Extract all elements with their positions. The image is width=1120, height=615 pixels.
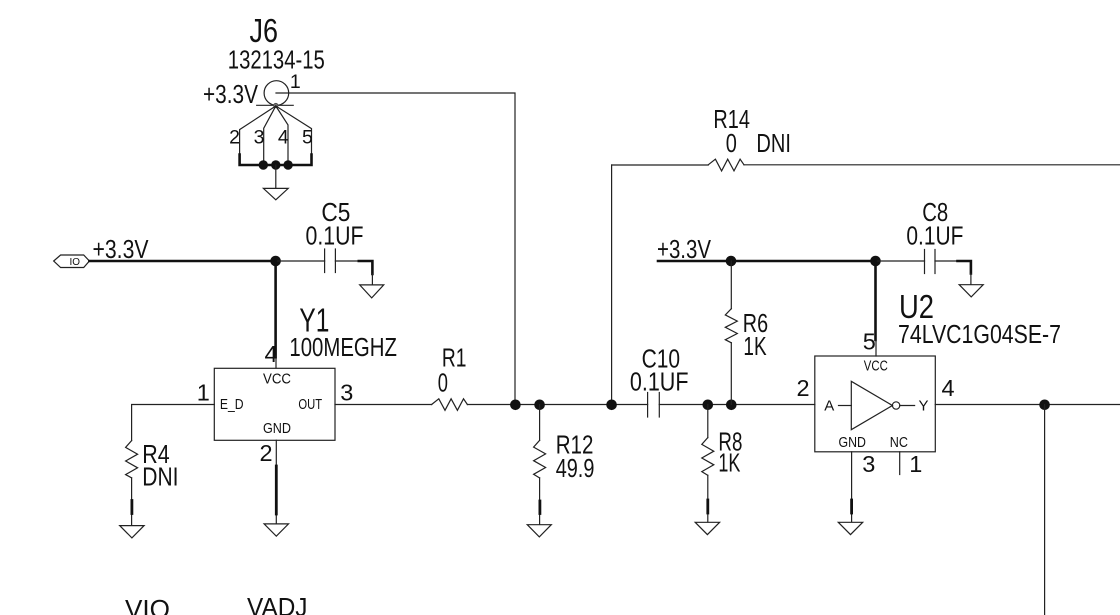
svg-text:A: A [824, 398, 834, 415]
wire to C5 [276, 260, 325, 262]
shield node [274, 103, 278, 107]
svg-text:NC: NC [890, 434, 908, 451]
svg-text:2: 2 [797, 375, 810, 401]
ground [527, 525, 551, 537]
junction node [606, 400, 617, 411]
svg-text:+3.3V: +3.3V [203, 79, 259, 109]
wire +3.3V rail left [89, 260, 275, 263]
junction dot [271, 160, 280, 169]
wire R6 top [730, 261, 732, 309]
bus wire [240, 155, 312, 166]
junction node [534, 400, 545, 411]
svg-text:4: 4 [265, 341, 278, 367]
resistor R6 [725, 309, 737, 343]
wire R6 bottom [730, 343, 732, 405]
svg-text:0.1UF: 0.1UF [306, 221, 364, 251]
wire R14 branch vertical [611, 165, 613, 405]
resistor R4 [126, 441, 138, 478]
wire R8 branch [707, 405, 709, 438]
resistor R14 [708, 159, 744, 171]
wire down right [1044, 405, 1046, 615]
ground [264, 524, 288, 536]
resistor R1 [432, 399, 468, 411]
ground [360, 285, 384, 298]
wire VCC drop to Y1 [274, 261, 277, 356]
pin Y lead [900, 405, 915, 407]
pin A lead [839, 405, 852, 407]
wire to ground [275, 165, 277, 188]
capacitor C5 [325, 249, 336, 273]
IO port symbol [54, 255, 90, 268]
wire C5 to ground [335, 260, 358, 262]
ground [959, 285, 983, 297]
svg-text:3: 3 [254, 127, 265, 149]
svg-text:1: 1 [290, 71, 301, 93]
wire R4 to ground [131, 478, 133, 525]
triangle [851, 381, 892, 429]
svg-text:GND: GND [839, 434, 867, 451]
wire U2 VCC drop [874, 261, 877, 340]
wire C8 to ground [935, 260, 958, 262]
svg-text:Y: Y [919, 398, 929, 415]
resistor R8 [702, 438, 714, 476]
svg-text:3: 3 [340, 379, 353, 405]
svg-text:1: 1 [197, 380, 210, 406]
junction node [270, 256, 281, 267]
svg-text:+3.3V: +3.3V [657, 234, 712, 264]
svg-text:74LVC1G04SE-7: 74LVC1G04SE-7 [898, 319, 1061, 349]
wire shield to pin4 [276, 106, 288, 165]
capacitor C10 [648, 393, 660, 418]
junction node [726, 256, 737, 267]
svg-text:2: 2 [229, 127, 240, 149]
wire Y1 OUT to R1 [335, 404, 432, 406]
junction node [703, 400, 714, 411]
ground [263, 188, 288, 199]
svg-text:2: 2 [260, 440, 273, 466]
bubble [892, 402, 899, 409]
svg-text:0: 0 [726, 128, 737, 158]
wire R12 branch [539, 405, 541, 441]
svg-text:100MEGHZ: 100MEGHZ [289, 332, 397, 362]
svg-text:J6: J6 [250, 12, 279, 49]
svg-text:5: 5 [863, 329, 876, 355]
svg-text:DNI: DNI [142, 462, 178, 492]
svg-text:IO: IO [70, 257, 81, 268]
svg-text:VCC: VCC [263, 370, 291, 387]
ground [838, 522, 862, 534]
svg-text:1: 1 [909, 451, 922, 477]
pin NC stub [899, 452, 901, 475]
junction dot [259, 160, 268, 169]
svg-text:49.9: 49.9 [556, 453, 595, 483]
wire U2 output [935, 404, 1120, 406]
wire R1 to C10 [467, 404, 647, 406]
wire R8 to ground [707, 475, 709, 522]
wire shield to pin3 [264, 106, 276, 165]
svg-text:VADJ: VADJ [247, 592, 308, 615]
junction dot [283, 160, 292, 169]
junction node [870, 256, 881, 267]
connector J6 [240, 81, 515, 405]
svg-text:OUT: OUT [298, 396, 322, 413]
junction node [1039, 400, 1050, 411]
svg-text:E_D: E_D [220, 396, 244, 413]
wire pin1 to net [276, 93, 515, 405]
shield bar [257, 104, 294, 106]
svg-text:0: 0 [438, 367, 448, 397]
ground [695, 522, 719, 534]
svg-text:3: 3 [862, 451, 875, 477]
svg-text:0.1UF: 0.1UF [906, 221, 963, 251]
svg-text:132134-15: 132134-15 [228, 45, 325, 75]
svg-text:0.1UF: 0.1UF [630, 367, 689, 397]
svg-text:1K: 1K [743, 331, 767, 361]
svg-text:4: 4 [278, 127, 289, 149]
junction node [726, 400, 737, 411]
wire C10 to U2 [659, 404, 815, 406]
junction node [510, 400, 521, 411]
svg-text:DNI: DNI [756, 128, 791, 158]
pin 1 circle [264, 81, 289, 106]
svg-text:5: 5 [302, 127, 313, 149]
svg-text:VCC: VCC [864, 357, 888, 374]
ground [120, 526, 144, 538]
svg-text:4: 4 [942, 375, 955, 401]
wire R14 right [744, 164, 1120, 166]
capacitor C8 [925, 250, 936, 274]
wire Y1 GND to ground [275, 440, 277, 523]
svg-text:+3.3V: +3.3V [93, 234, 150, 264]
oscillator Y1 [214, 368, 335, 440]
wire shield to pin2 [240, 106, 276, 165]
wire R14 left [612, 164, 709, 166]
resistor R12 [534, 440, 546, 478]
svg-text:VIO: VIO [125, 594, 170, 615]
wire R12 to ground [539, 478, 541, 524]
wire U2 GND to ground [851, 452, 853, 522]
wire C8 from rail [876, 260, 925, 262]
inverter U2 [815, 356, 936, 452]
svg-text:1K: 1K [718, 447, 740, 477]
wire +3.3V rail right [658, 260, 876, 263]
wire pin1 E_D [132, 405, 215, 441]
svg-text:GND: GND [263, 420, 291, 437]
wire shield to pin5 [276, 106, 312, 165]
